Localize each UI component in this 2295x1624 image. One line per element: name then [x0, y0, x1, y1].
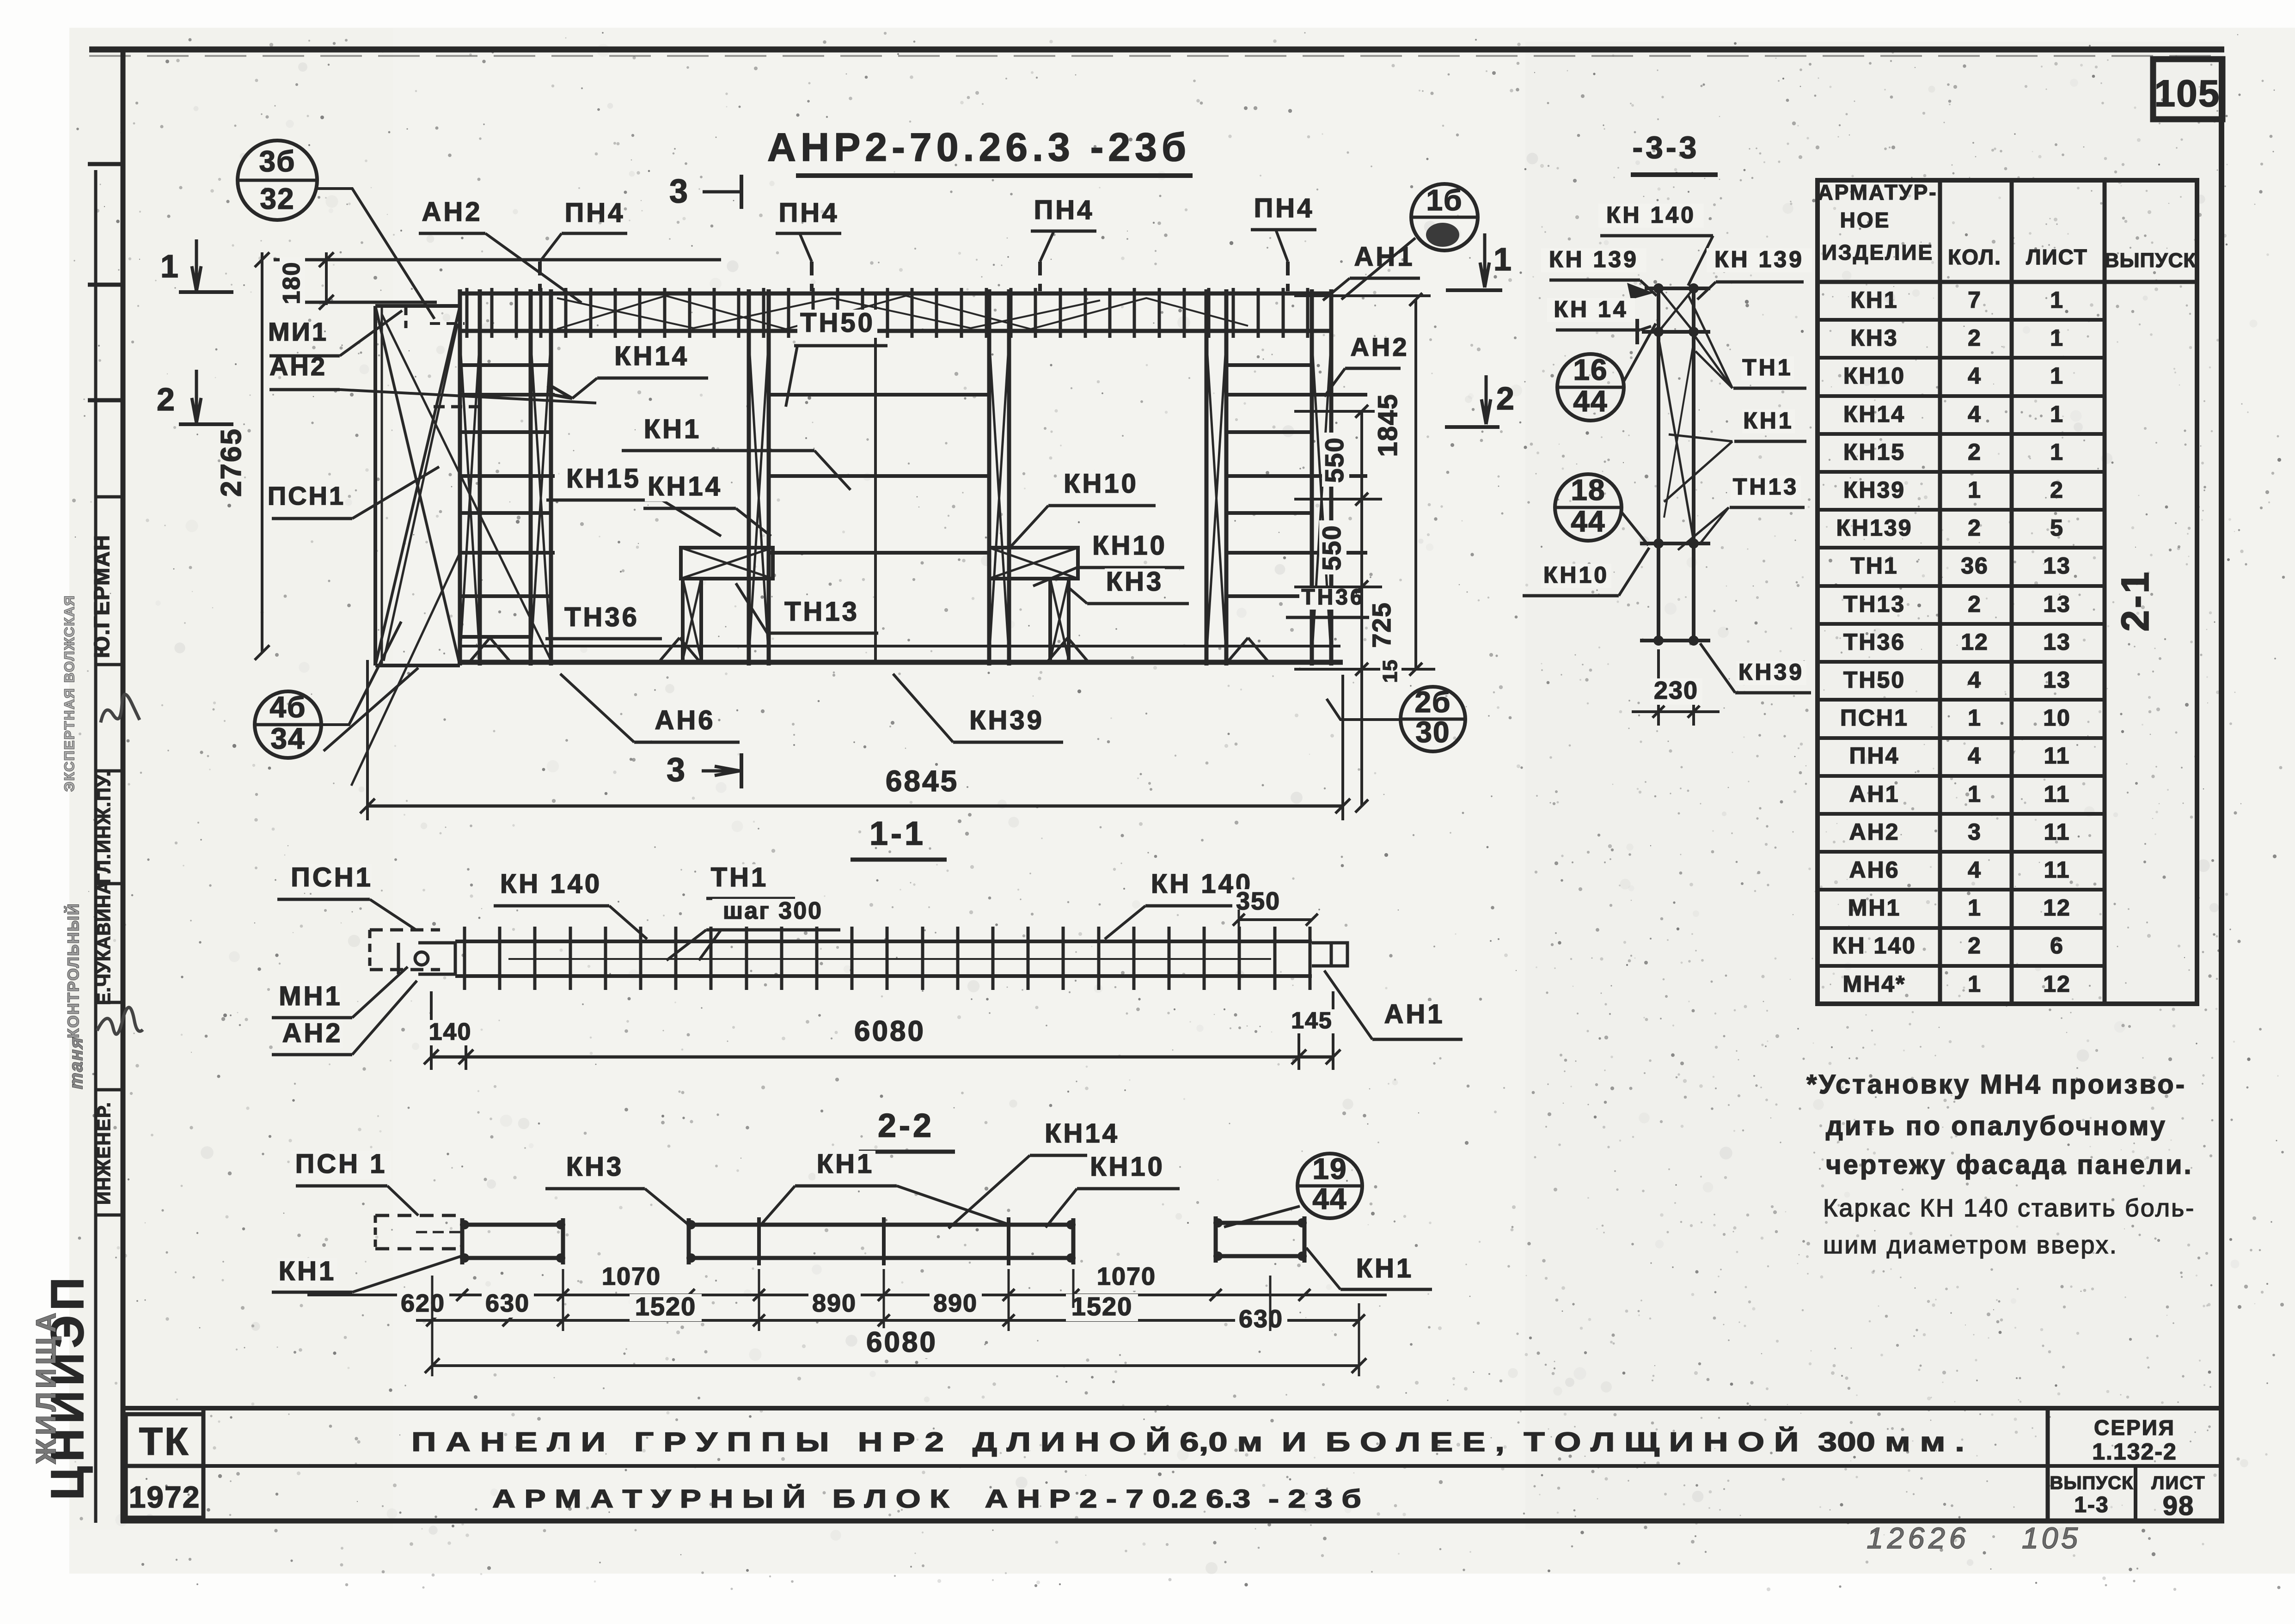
- svg-text:таня: таня: [66, 1037, 86, 1089]
- svg-text:890: 890: [812, 1289, 857, 1317]
- svg-text:12: 12: [2043, 895, 2071, 921]
- svg-text:КН 140: КН 140: [1606, 202, 1696, 228]
- svg-text:3: 3: [669, 173, 688, 210]
- svg-text:180: 180: [278, 262, 305, 305]
- svg-text:1: 1: [2050, 363, 2064, 389]
- svg-text:ЛИСТ: ЛИСТ: [2151, 1473, 2205, 1493]
- svg-text:КН15: КН15: [566, 464, 641, 494]
- svg-text:ПСН1: ПСН1: [268, 481, 345, 510]
- svg-text:13: 13: [2043, 667, 2071, 693]
- svg-text:КН14: КН14: [1843, 401, 1905, 427]
- svg-text:32: 32: [260, 182, 294, 215]
- svg-text:19: 19: [1312, 1152, 1347, 1185]
- svg-text:44: 44: [1571, 505, 1605, 538]
- svg-text:12626: 12626: [1867, 1521, 1970, 1555]
- svg-text:2: 2: [1968, 325, 1982, 351]
- svg-text:ПН4: ПН4: [1254, 193, 1315, 223]
- svg-text:КН1: КН1: [644, 414, 702, 444]
- svg-text:АН1: АН1: [1849, 781, 1899, 807]
- svg-text:4: 4: [1968, 401, 1982, 427]
- svg-text:КН1: КН1: [279, 1256, 337, 1286]
- svg-text:1: 1: [1493, 241, 1513, 277]
- svg-text:1972: 1972: [129, 1480, 201, 1514]
- svg-text:А Р М А Т У Р Н Ы Й Б Л О К: А Р М А Т У Р Н Ы Й Б Л О К А Н Р 2 - 7 …: [492, 1484, 1361, 1513]
- svg-text:АНР2-70.26.3 -23б: АНР2-70.26.3 -23б: [767, 125, 1191, 170]
- svg-text:4: 4: [1968, 743, 1982, 769]
- svg-text:КН1: КН1: [1850, 287, 1898, 313]
- svg-text:1070: 1070: [602, 1263, 661, 1290]
- svg-text:11: 11: [2044, 781, 2070, 807]
- svg-text:6: 6: [2050, 933, 2064, 959]
- svg-text:КН 140: КН 140: [1832, 933, 1916, 959]
- svg-text:КН10: КН10: [1543, 562, 1609, 588]
- svg-text:ПН4: ПН4: [565, 198, 625, 228]
- svg-text:550: 550: [1317, 525, 1346, 570]
- svg-text:КН3: КН3: [566, 1152, 624, 1182]
- svg-text:30: 30: [1415, 715, 1450, 749]
- svg-text:МН1: МН1: [1848, 895, 1901, 921]
- svg-text:АН2: АН2: [1350, 332, 1409, 361]
- svg-text:ПН4: ПН4: [1849, 743, 1900, 769]
- svg-text:ТН13: ТН13: [1843, 591, 1905, 617]
- svg-text:145: 145: [1291, 1007, 1332, 1033]
- svg-text:КН1: КН1: [1743, 408, 1793, 433]
- svg-text:105: 105: [2154, 73, 2221, 115]
- svg-text:3: 3: [1968, 819, 1982, 845]
- svg-text:ТН13: ТН13: [784, 597, 859, 627]
- svg-text:КН139: КН139: [1836, 515, 1912, 541]
- svg-text:1: 1: [1968, 895, 1982, 921]
- svg-text:АН2: АН2: [1849, 819, 1899, 845]
- svg-text:11: 11: [2044, 857, 2070, 883]
- svg-text:АН2: АН2: [422, 197, 482, 227]
- svg-text:1: 1: [2050, 401, 2064, 427]
- svg-text:13: 13: [2043, 591, 2071, 617]
- svg-text:КН 139: КН 139: [1549, 246, 1639, 272]
- svg-text:2: 2: [157, 381, 176, 417]
- svg-text:ИЗДЕЛИЕ: ИЗДЕЛИЕ: [1822, 240, 1934, 264]
- svg-text:ЛИСТ: ЛИСТ: [2026, 245, 2088, 269]
- svg-text:34: 34: [270, 722, 305, 755]
- svg-text:КН10: КН10: [1843, 363, 1905, 389]
- svg-text:2: 2: [1968, 591, 1982, 617]
- svg-text:2: 2: [1968, 515, 1982, 541]
- svg-text:КН3: КН3: [1850, 325, 1898, 351]
- svg-text:1070: 1070: [1097, 1263, 1156, 1290]
- svg-text:КН1: КН1: [817, 1149, 875, 1179]
- svg-text:ГЛ.ИНЖ.ПУ.: ГЛ.ИНЖ.ПУ.: [94, 770, 114, 884]
- svg-text:350: 350: [1236, 887, 1280, 915]
- svg-text:36: 36: [1961, 553, 1989, 579]
- svg-text:11: 11: [2044, 819, 2070, 845]
- svg-text:МН1: МН1: [279, 981, 342, 1011]
- svg-text:дить по опалубочному: дить по опалубочному: [1826, 1111, 2167, 1141]
- svg-text:13: 13: [2043, 629, 2071, 655]
- svg-text:КН10: КН10: [1092, 531, 1167, 561]
- svg-text:*Установку МН4 произво-: *Установку МН4 произво-: [1806, 1069, 2186, 1099]
- svg-text:КН14: КН14: [1045, 1118, 1120, 1148]
- svg-text:620: 620: [401, 1289, 445, 1317]
- svg-text:АН6: АН6: [1849, 857, 1899, 883]
- svg-text:6845: 6845: [886, 764, 959, 798]
- svg-text:2-2: 2-2: [878, 1107, 934, 1144]
- svg-text:ТН13: ТН13: [1733, 474, 1799, 500]
- svg-text:230: 230: [1654, 677, 1698, 704]
- svg-text:4б: 4б: [269, 690, 306, 724]
- svg-text:ТН1: ТН1: [1742, 354, 1793, 380]
- svg-text:1: 1: [2050, 287, 2064, 313]
- svg-text:2765: 2765: [215, 427, 247, 497]
- svg-text:ВЫПУСК: ВЫПУСК: [2050, 1473, 2134, 1493]
- svg-text:5: 5: [2050, 515, 2064, 541]
- svg-text:1520: 1520: [1071, 1292, 1133, 1321]
- svg-text:6080: 6080: [866, 1326, 937, 1358]
- svg-text:КН3: КН3: [1106, 567, 1164, 597]
- svg-text:2-1: 2-1: [2113, 570, 2157, 631]
- svg-text:4: 4: [1968, 857, 1982, 883]
- svg-text:АРМАТУР-: АРМАТУР-: [1818, 180, 1937, 204]
- svg-text:18: 18: [1571, 473, 1605, 507]
- svg-text:ИНЖЕНЕР.: ИНЖЕНЕР.: [94, 1101, 114, 1205]
- svg-text:ВЫПУСК: ВЫПУСК: [2105, 249, 2196, 272]
- svg-text:КН 139: КН 139: [1714, 246, 1804, 272]
- svg-text:КН10: КН10: [1064, 469, 1138, 499]
- svg-text:2: 2: [1968, 933, 1982, 959]
- svg-text:44: 44: [1573, 385, 1608, 418]
- svg-text:140: 140: [429, 1019, 472, 1045]
- svg-text:15: 15: [1379, 659, 1401, 683]
- svg-text:КН39: КН39: [1843, 477, 1905, 503]
- svg-text:2: 2: [1968, 439, 1982, 465]
- svg-text:Ю.ГЕРМАН: Ю.ГЕРМАН: [90, 534, 114, 658]
- svg-text:1: 1: [160, 248, 180, 284]
- svg-text:1-3: 1-3: [2074, 1493, 2109, 1517]
- svg-text:АН1: АН1: [1384, 999, 1444, 1029]
- svg-text:-3-3: -3-3: [1633, 130, 1700, 165]
- svg-text:12: 12: [2043, 971, 2071, 997]
- svg-text:16: 16: [1573, 353, 1608, 386]
- svg-text:1: 1: [1968, 477, 1982, 503]
- svg-text:1: 1: [2050, 325, 2064, 351]
- svg-text:Каркас КН 140 ставить боль-: Каркас КН 140 ставить боль-: [1823, 1194, 2195, 1222]
- svg-text:1520: 1520: [635, 1292, 697, 1321]
- svg-text:98: 98: [2163, 1491, 2195, 1521]
- svg-text:13: 13: [2043, 553, 2071, 579]
- svg-text:шим диаметром вверх.: шим диаметром вверх.: [1823, 1231, 2118, 1259]
- svg-text:КН39: КН39: [969, 705, 1044, 735]
- svg-text:ЭКСПЕРТНАЯ ВОЛЖСКАЯ: ЭКСПЕРТНАЯ ВОЛЖСКАЯ: [62, 595, 77, 792]
- svg-text:КН14: КН14: [614, 341, 689, 371]
- svg-text:ТН36: ТН36: [1301, 585, 1365, 610]
- svg-text:2: 2: [2050, 477, 2064, 503]
- svg-text:1-1: 1-1: [869, 815, 926, 852]
- svg-text:105: 105: [2022, 1521, 2081, 1555]
- svg-text:КН 14: КН 14: [1554, 296, 1628, 322]
- svg-text:шаг 300: шаг 300: [723, 897, 823, 924]
- svg-text:1: 1: [2050, 439, 2064, 465]
- svg-text:890: 890: [933, 1289, 978, 1317]
- svg-text:ПН4: ПН4: [1034, 195, 1095, 225]
- svg-text:44: 44: [1312, 1182, 1347, 1215]
- svg-text:3б: 3б: [259, 145, 295, 178]
- svg-text:АН2: АН2: [269, 352, 327, 381]
- svg-text:КН10: КН10: [1090, 1152, 1165, 1182]
- svg-text:ТН36: ТН36: [1843, 629, 1905, 655]
- svg-text:НОЕ: НОЕ: [1840, 208, 1891, 232]
- svg-text:ТН36: ТН36: [564, 602, 639, 632]
- svg-text:ПСН1: ПСН1: [291, 862, 373, 892]
- svg-text:550: 550: [1320, 437, 1349, 482]
- svg-text:1б: 1б: [1426, 183, 1463, 217]
- svg-text:МН4*: МН4*: [1842, 971, 1906, 997]
- svg-text:ПН4: ПН4: [779, 198, 839, 228]
- svg-text:ТН50: ТН50: [1843, 667, 1905, 693]
- svg-text:7: 7: [1968, 287, 1982, 313]
- svg-text:1845: 1845: [1373, 393, 1403, 457]
- svg-text:1.132-2: 1.132-2: [2092, 1439, 2177, 1465]
- svg-text:П А Н Е Л И Г Р У П П Ы Н: П А Н Е Л И Г Р У П П Ы Н Р 2 Д Л И Н О …: [411, 1427, 1965, 1457]
- svg-text:4: 4: [1968, 363, 1982, 389]
- svg-text:КН 140: КН 140: [500, 869, 602, 899]
- svg-text:СЕРИЯ: СЕРИЯ: [2094, 1416, 2175, 1440]
- svg-text:КОНТРОЛЬНЫЙ: КОНТРОЛЬНЫЙ: [64, 903, 82, 1038]
- svg-text:ТН1: ТН1: [1850, 553, 1898, 579]
- svg-text:630: 630: [1239, 1305, 1283, 1333]
- svg-text:ЖИЛИЩА: ЖИЛИЩА: [31, 1309, 61, 1464]
- svg-text:2: 2: [1496, 380, 1516, 416]
- svg-text:чертежу фасада панели.: чертежу фасада панели.: [1826, 1150, 2193, 1180]
- svg-text:725: 725: [1367, 602, 1396, 647]
- svg-text:КН39: КН39: [1738, 659, 1804, 685]
- svg-text:ПСН 1: ПСН 1: [295, 1149, 387, 1179]
- svg-text:КОЛ.: КОЛ.: [1948, 245, 2001, 269]
- svg-text:4: 4: [1968, 667, 1982, 693]
- svg-text:10: 10: [2043, 705, 2071, 731]
- svg-text:1: 1: [1968, 781, 1982, 807]
- svg-text:КН15: КН15: [1843, 439, 1905, 465]
- svg-text:ТК: ТК: [139, 1420, 190, 1463]
- svg-text:1: 1: [1968, 971, 1982, 997]
- svg-text:2б: 2б: [1414, 685, 1451, 719]
- svg-text:3: 3: [667, 751, 685, 788]
- svg-text:КН14: КН14: [648, 471, 722, 501]
- svg-text:1: 1: [1968, 705, 1982, 731]
- svg-text:МИ1: МИ1: [268, 317, 328, 346]
- svg-text:АН2: АН2: [282, 1018, 343, 1048]
- svg-text:КН1: КН1: [1356, 1253, 1414, 1283]
- svg-text:АН6: АН6: [655, 705, 715, 735]
- svg-text:ТН50: ТН50: [800, 308, 875, 338]
- svg-text:ПСН1: ПСН1: [1840, 705, 1909, 731]
- svg-text:630: 630: [485, 1289, 530, 1317]
- svg-text:ТН1: ТН1: [711, 862, 769, 892]
- svg-text:6080: 6080: [854, 1015, 925, 1047]
- svg-text:11: 11: [2044, 743, 2070, 769]
- svg-text:12: 12: [1961, 629, 1989, 655]
- svg-text:Е.ЧУКАВИНА: Е.ЧУКАВИНА: [94, 880, 114, 1005]
